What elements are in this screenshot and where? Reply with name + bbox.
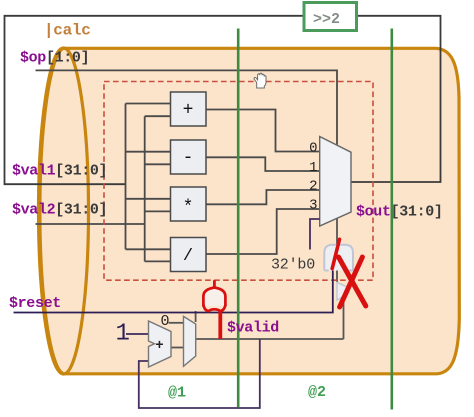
small mux (valid select): [184, 316, 196, 366]
svg-text:-: -: [183, 148, 194, 168]
svg-text:+: +: [155, 338, 163, 354]
ALU box -: [171, 140, 207, 174]
ALU box *: [171, 187, 207, 221]
svg-text:0: 0: [309, 140, 317, 156]
stage marker green line right: [390, 29, 393, 410]
ALU box /: [171, 238, 207, 272]
wire adder + output to mux input 0: [206, 110, 320, 152]
ALU box +: [171, 92, 207, 126]
stage marker green line @1/@2 boundary: [237, 29, 240, 408]
wire mux bottom to ghost flop: [337, 219, 344, 340]
svg-text:0: 0: [161, 313, 170, 330]
wire $reset horizontal and up to ghost flop: [14, 270, 333, 312]
wire $valid feedback loop (purple rectangle): [139, 339, 260, 408]
red slash (removed wire): [332, 239, 339, 268]
svg-text:@2: @2: [308, 384, 326, 401]
wire constant 1 into adder: [126, 333, 149, 335]
svg-text:$out[31:0]: $out[31:0]: [356, 204, 443, 221]
wire stub small mux select from $reset: [195, 311, 197, 322]
svg-text:*: *: [183, 198, 194, 218]
svg-text:>>2: >>2: [313, 11, 340, 28]
svg-text:+: +: [183, 101, 194, 121]
wire $val2: [36, 223, 145, 225]
svg-text:1: 1: [116, 321, 130, 348]
wire stubs val2 into ALU boxes: [145, 116, 171, 261]
wire stubs val1 into ALU boxes: [126, 104, 171, 250]
mux U1 (result select): [320, 137, 351, 227]
svg-text:$reset: $reset: [9, 295, 61, 312]
hand cursor icon: [254, 73, 266, 88]
svg-text:2: 2: [309, 179, 317, 195]
feedback wire loop >>2$out (black rectangle path): [5, 16, 303, 184]
svg-text:@1: @1: [168, 385, 186, 402]
svg-text:$val1[31:0]: $val1[31:0]: [12, 163, 107, 180]
wire from >>2 box to right corner and down to mux output: [351, 16, 441, 182]
wire multiply * output to mux input 2: [206, 190, 320, 204]
wire val2 vertical distribution: [144, 116, 146, 261]
alignment box >>2: [304, 3, 357, 31]
ghost stage feed shape: [337, 283, 349, 301]
wire 32'b0 default into mux: [310, 219, 320, 250]
wire $valid horizontal: [196, 338, 344, 340]
red dashed region boundary: [104, 82, 373, 281]
svg-text:|calc: |calc: [44, 22, 91, 40]
wire $op horizontal and down to mux select: [36, 70, 338, 144]
svg-text:1: 1: [309, 160, 317, 176]
red X (crossed-out flop): [339, 257, 366, 307]
pipeline cylinder left end-cap ellipse: [39, 48, 89, 374]
svg-text:$valid: $valid: [227, 320, 279, 337]
OR gate output (thick red): [218, 310, 222, 340]
wire adder to small mux: [171, 347, 184, 349]
svg-text:$val2[31:0]: $val2[31:0]: [12, 202, 107, 219]
wire stub mux input 0 (small mux): [169, 322, 184, 324]
adder (increment) shape: [149, 321, 172, 367]
svg-text:/: /: [183, 247, 193, 266]
wire val1 vertical distribution: [125, 104, 127, 250]
wire subtract - output to mux input 1: [206, 157, 320, 171]
wire divide / output to mux input 3: [206, 209, 320, 254]
OR gate (valid/reset) red: [213, 280, 216, 287]
ghost flop (disabled latch): [324, 245, 353, 271]
svg-text:$op[1:0]: $op[1:0]: [20, 50, 89, 67]
svg-text:3: 3: [309, 197, 317, 213]
svg-text:32'b0: 32'b0: [271, 257, 315, 274]
pipeline cylinder |calc body: [40, 48, 459, 374]
